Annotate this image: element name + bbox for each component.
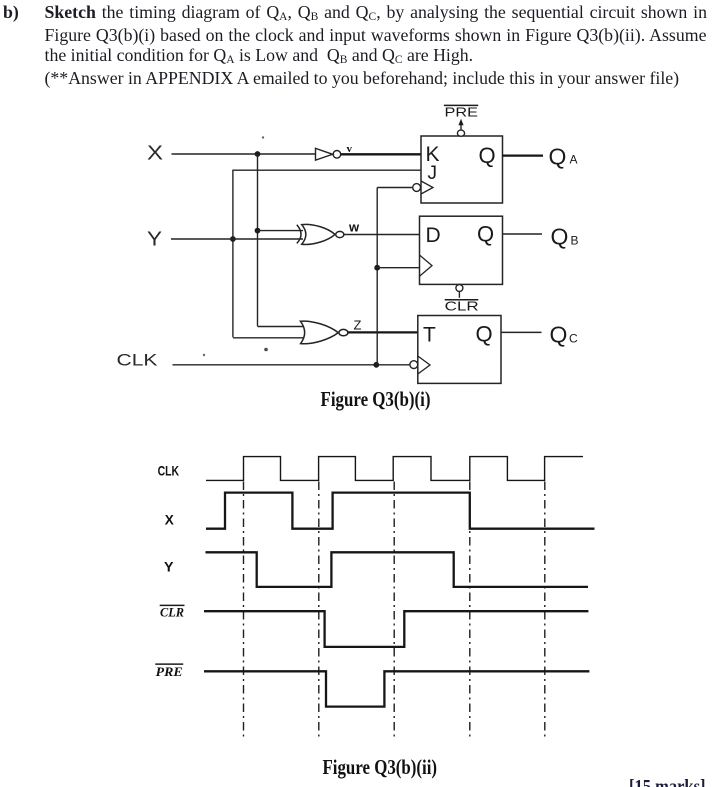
D flip-flop U2 xyxy=(420,216,503,284)
wire QC output xyxy=(501,331,542,333)
svg-text:Q: Q xyxy=(477,222,494,247)
node CLK junction xyxy=(373,362,379,368)
wire JK clock stub xyxy=(377,187,412,189)
wire Y input xyxy=(171,238,303,240)
CLR input of U2 xyxy=(445,285,479,314)
paragraph line 4 xyxy=(45,68,680,88)
svg-text:Y: Y xyxy=(164,559,174,575)
wire D clock stub xyxy=(377,267,420,269)
svg-text:[15 marks]: [15 marks] xyxy=(629,778,706,787)
waveform CLR xyxy=(204,611,588,647)
waveform Y xyxy=(206,552,589,587)
svg-text:Y: Y xyxy=(147,229,162,251)
svg-text:CLK: CLK xyxy=(117,351,159,370)
net label Z xyxy=(354,318,362,333)
svg-text:Q: Q xyxy=(479,143,496,168)
node Y junction xyxy=(230,236,236,242)
svg-text:Q: Q xyxy=(549,143,567,169)
wire QA output xyxy=(503,154,544,156)
net label w xyxy=(348,220,360,235)
JK flip-flop U1 xyxy=(413,136,503,203)
waveform CLK xyxy=(206,457,583,481)
waveform label X xyxy=(165,511,175,527)
svg-text:C: C xyxy=(569,331,578,345)
NOR gate G3 xyxy=(300,321,348,344)
waveform label CLK xyxy=(158,463,180,479)
node X junction xyxy=(255,151,261,157)
wire NOR top input xyxy=(258,326,305,328)
waveform PRE xyxy=(204,671,589,706)
svg-text:J: J xyxy=(428,163,438,184)
svg-text:A: A xyxy=(570,153,578,167)
waveform label Y xyxy=(164,559,174,575)
net label v xyxy=(347,143,353,155)
svg-text:X: X xyxy=(165,511,175,527)
node D clock junction xyxy=(374,265,380,271)
net label QB xyxy=(551,224,579,250)
paragraph line 1 xyxy=(45,2,707,25)
svg-text:PRE: PRE xyxy=(445,106,479,120)
svg-text:Z: Z xyxy=(354,318,362,333)
svg-text:CLR: CLR xyxy=(445,300,479,314)
question label b) xyxy=(3,2,19,22)
grid dash-dot line t4 xyxy=(469,482,471,738)
caption Figure Q3(b)(ii) xyxy=(323,755,438,779)
net label QA xyxy=(549,143,578,169)
input label X xyxy=(147,143,163,165)
svg-text:Q: Q xyxy=(476,322,493,347)
wire clock bus vertical xyxy=(376,188,378,365)
wire X bus vertical xyxy=(257,154,259,326)
grid dash-dot line t5 xyxy=(544,482,546,738)
wire X input xyxy=(172,153,316,155)
net label QC xyxy=(550,321,579,347)
grid dash-dot line t1 xyxy=(243,482,245,738)
wire w (XNOR out to D input) xyxy=(343,234,420,236)
inverter G1 xyxy=(316,148,341,160)
scan speck left of NOR xyxy=(203,354,205,356)
svg-text:CLR: CLR xyxy=(160,605,184,620)
svg-text:PRE: PRE xyxy=(156,664,183,679)
caption Figure Q3(b)(i) xyxy=(321,387,431,411)
wire CLK input xyxy=(173,364,411,366)
grid dash-dot line t2 xyxy=(318,482,320,738)
paragraph line 2 xyxy=(45,25,707,45)
node XNOR top input junction xyxy=(255,228,261,234)
paragraph line 3 xyxy=(45,45,474,68)
svg-text:Q: Q xyxy=(550,321,568,347)
wire z (NOR out to T input) xyxy=(348,331,419,333)
wire NOR bottom input xyxy=(233,337,304,339)
scan speck near NOR xyxy=(264,348,268,352)
wire v (inverter out to K input) xyxy=(341,153,422,155)
svg-text:Figure Q3(b)(ii): Figure Q3(b)(ii) xyxy=(323,755,438,779)
svg-text:D: D xyxy=(426,224,441,247)
T flip-flop U3 xyxy=(410,316,501,384)
waveform label CLR (active-low overline) xyxy=(160,605,185,620)
scan speck near inverter xyxy=(262,136,264,138)
PRE input of U1 xyxy=(444,105,478,136)
svg-text:X: X xyxy=(147,143,163,165)
input label CLK xyxy=(117,351,159,370)
svg-text:Q: Q xyxy=(551,224,569,250)
waveform X xyxy=(206,493,595,529)
svg-text:CLK: CLK xyxy=(158,463,180,479)
svg-text:Figure Q3(b)(i): Figure Q3(b)(i) xyxy=(321,387,431,411)
grid dash-dot line t3 xyxy=(393,482,395,738)
waveform label PRE (active-low overline) xyxy=(155,664,183,679)
input label Y xyxy=(147,229,162,251)
marks label [15 marks] xyxy=(629,778,706,787)
wire Y bus vertical xyxy=(232,170,234,338)
wire J input xyxy=(233,169,421,171)
XNOR gate G2 xyxy=(297,224,344,244)
wire XNOR top input xyxy=(258,230,304,232)
svg-text:w: w xyxy=(348,220,360,235)
wire QB output xyxy=(503,233,543,235)
svg-text:B: B xyxy=(571,234,579,248)
svg-text:T: T xyxy=(423,324,436,347)
